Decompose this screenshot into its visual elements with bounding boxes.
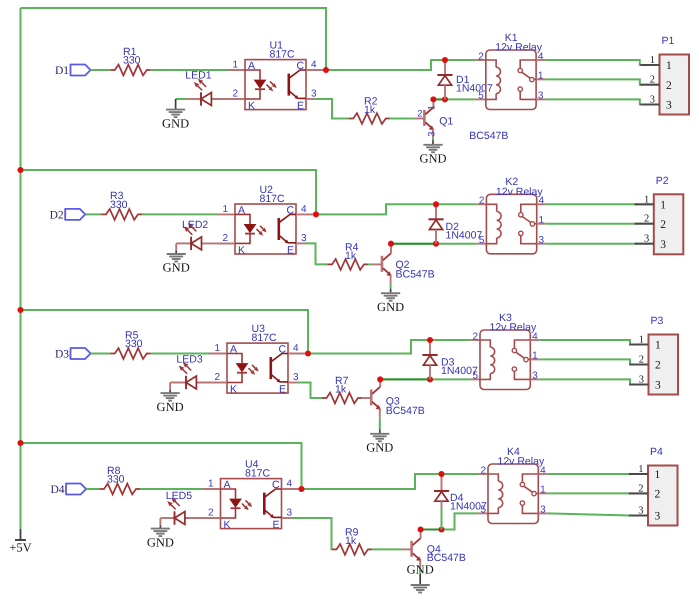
power symbol +5V (20, 529, 22, 540)
svg-text:1: 1 (427, 105, 438, 110)
diode D1 1N4007 (444, 60, 446, 75)
svg-text:817C: 817C (270, 48, 296, 60)
svg-text:12v Relay: 12v Relay (496, 186, 543, 198)
svg-text:330: 330 (123, 54, 141, 66)
junction : diode D2 top (433, 201, 439, 207)
ground : under Q3 (379, 417, 381, 430)
svg-text:5: 5 (472, 371, 478, 382)
svg-text:12v Relay: 12v Relay (498, 456, 545, 468)
wire : overlapped net segment (391, 243, 436, 245)
svg-text:K: K (238, 244, 245, 256)
junction : Q4 collector node (418, 526, 424, 532)
connector P2 (654, 194, 684, 254)
diode D4 1N4007 (441, 474, 443, 491)
svg-text:1: 1 (660, 200, 666, 212)
relay K4 12v Relay (488, 464, 538, 524)
wire : node to relay coil row (302, 474, 479, 489)
LED LED2 (176, 242, 191, 244)
svg-text:2: 2 (472, 331, 478, 342)
wire : opto emitter to base resistor (306, 98, 316, 100)
svg-text:3: 3 (655, 511, 661, 523)
svg-text:1: 1 (650, 55, 655, 66)
junction : Q3 collector node (377, 376, 383, 382)
svg-text:BC547B: BC547B (386, 405, 425, 417)
wire : opto emitter to base resistor (282, 517, 292, 519)
svg-text:2: 2 (660, 219, 666, 231)
svg-text:1: 1 (232, 60, 238, 71)
junction : rail ch4 (17, 440, 23, 446)
svg-text:2: 2 (666, 80, 672, 92)
wire : overlapped net segment (380, 378, 430, 380)
ground : under LED5 (159, 518, 161, 525)
resistor R3 330 (102, 209, 143, 220)
svg-text:P4: P4 (650, 446, 663, 458)
svg-text:A: A (238, 205, 245, 217)
wire : collector row to relay pin5 (391, 243, 477, 245)
svg-text:1: 1 (644, 194, 649, 205)
wire : relay contacts to connector (538, 473, 547, 475)
resistor R5 330 (110, 348, 151, 359)
svg-text:2: 2 (644, 214, 649, 225)
svg-text:1: 1 (655, 340, 661, 352)
svg-text:3: 3 (660, 239, 666, 251)
ground : under LED1 (175, 99, 177, 110)
junction : opto pin4 node ch2 (313, 211, 319, 217)
resistor R7 1k (322, 393, 362, 404)
svg-text:GND: GND (366, 441, 393, 455)
wire : node to relay coil row (326, 60, 476, 70)
svg-text:1k: 1k (345, 250, 357, 262)
wire (86, 488, 99, 490)
svg-text:P2: P2 (656, 175, 669, 187)
svg-text:330: 330 (110, 199, 128, 211)
relay K2 12v Relay (486, 194, 536, 254)
svg-text:817C: 817C (252, 332, 278, 344)
wire : collector row to relay pin5 (ch4) (421, 513, 479, 529)
svg-text:4: 4 (287, 479, 293, 490)
junction : diode D2 bottom (433, 241, 439, 247)
svg-text:1N4007: 1N4007 (446, 230, 483, 242)
wire : opto collector to +V node (296, 213, 316, 215)
wire : opto emitter to base resistor (296, 242, 306, 244)
ground : under Q1 (432, 137, 434, 140)
resistor R1 330 (110, 65, 151, 76)
node D1 : input net tag (71, 65, 91, 76)
svg-text:K: K (224, 519, 231, 531)
wire : opto collector to +V node (282, 488, 302, 490)
wire (91, 353, 111, 355)
node D2 : input net tag (65, 209, 85, 220)
svg-text:GND: GND (157, 400, 184, 414)
svg-text:3: 3 (644, 234, 649, 245)
svg-text:1: 1 (655, 469, 661, 481)
junction : rail ch3 (17, 307, 23, 313)
svg-text:C: C (297, 60, 305, 72)
wire : node to relay coil row (316, 204, 477, 214)
svg-text:C: C (279, 344, 287, 356)
connector P4 (648, 466, 678, 526)
op-amp/optocoupler U3 817C (227, 343, 288, 393)
svg-text:3: 3 (287, 508, 293, 519)
svg-text:C: C (287, 205, 295, 217)
svg-text:D1: D1 (55, 65, 69, 77)
junction : diode D4 bottom (438, 526, 444, 532)
svg-text:C: C (272, 479, 280, 491)
svg-text:Q1: Q1 (439, 116, 453, 128)
svg-text:1N4007: 1N4007 (456, 83, 493, 95)
svg-text:1: 1 (214, 343, 220, 354)
svg-text:3: 3 (650, 95, 655, 106)
op-amp/optocoupler U4 817C (221, 479, 282, 529)
junction : diode D3 bottom (427, 376, 433, 382)
junction : Q2 collector node (388, 241, 394, 247)
svg-text:4: 4 (293, 343, 299, 354)
wire (151, 69, 227, 71)
svg-text:GND: GND (163, 261, 190, 275)
svg-text:1: 1 (639, 335, 644, 346)
svg-text:3: 3 (301, 233, 307, 244)
junction : diode D4 top (438, 471, 444, 477)
diode D3 1N4007 (429, 340, 431, 355)
svg-text:1k: 1k (345, 535, 357, 547)
op-amp/optocoupler U2 817C (235, 204, 296, 254)
svg-text:D2: D2 (50, 209, 64, 221)
svg-text:3: 3 (638, 506, 643, 517)
wire (390, 118, 415, 120)
wire : opto collector to +V node (288, 353, 308, 355)
wire : ch1 top rail (21, 8, 327, 70)
wire : +5V rail branch ch4 (21, 443, 302, 489)
svg-text:817C: 817C (245, 467, 271, 479)
svg-text:LED3: LED3 (176, 354, 202, 366)
svg-text:2: 2 (479, 196, 485, 207)
svg-text:E: E (279, 384, 286, 396)
wire (142, 213, 217, 215)
svg-text:2: 2 (639, 355, 644, 366)
resistor R9 1k (332, 544, 372, 555)
wire : relay contacts to connector (537, 203, 546, 205)
connector P1 (660, 55, 690, 115)
op-amp/optocoupler U1 817C (245, 60, 306, 110)
junction : diode D1 bottom (442, 96, 448, 102)
svg-text:3: 3 (293, 372, 299, 383)
svg-text:GND: GND (377, 300, 404, 314)
wire : collector row to relay pin5 (433, 98, 476, 100)
node D4 : input net tag (66, 484, 86, 495)
svg-text:1k: 1k (335, 383, 347, 395)
svg-text:A: A (230, 344, 237, 356)
svg-text:3: 3 (666, 100, 672, 112)
svg-text:BC547B: BC547B (469, 130, 508, 142)
relay K1 12v Relay (486, 50, 536, 110)
svg-text:12v Relay: 12v Relay (495, 42, 542, 54)
svg-text:1: 1 (638, 464, 643, 475)
wire (151, 353, 209, 355)
resistor R4 1k (328, 259, 369, 270)
wire : collector row to relay pin5 (380, 378, 470, 380)
wire : opto emitter to base resistor (288, 382, 298, 384)
svg-text:LED2: LED2 (182, 219, 208, 231)
transistor Q2 BC547B (381, 256, 384, 272)
node D3 : input net tag (71, 348, 91, 359)
LED LED3 (170, 382, 186, 384)
svg-text:A: A (248, 60, 255, 72)
ground : under LED3 (169, 383, 171, 390)
svg-text:2: 2 (208, 508, 214, 519)
svg-text:GND: GND (407, 563, 434, 577)
svg-text:3: 3 (655, 380, 661, 392)
wire (372, 548, 402, 550)
junction : diode D3 top (427, 337, 433, 343)
wire : relay contacts to connector (536, 59, 545, 61)
relay K3 12v Relay (480, 330, 530, 390)
svg-text:2: 2 (638, 483, 643, 494)
wire (85, 213, 101, 215)
svg-text:330: 330 (107, 473, 125, 485)
LED LED5 (160, 517, 174, 519)
ground : under LED2 (175, 243, 177, 250)
junction : opto pin4 node ch1 (323, 67, 329, 73)
svg-text:2: 2 (650, 75, 655, 86)
svg-text:1: 1 (208, 479, 214, 490)
svg-text:1: 1 (666, 60, 672, 72)
svg-text:2: 2 (417, 108, 422, 119)
svg-text:1: 1 (222, 204, 228, 215)
junction : rail ch2 (17, 167, 23, 173)
svg-text:5: 5 (479, 235, 485, 246)
junction : opto pin4 node ch4 (298, 486, 304, 492)
svg-text:GND: GND (147, 535, 174, 549)
svg-text:BC547B: BC547B (396, 269, 435, 281)
svg-text:+5V: +5V (9, 541, 31, 555)
svg-text:D3: D3 (55, 349, 69, 361)
svg-text:GND: GND (419, 152, 446, 166)
svg-text:P1: P1 (662, 35, 675, 47)
wire : overlapped net segment (433, 98, 445, 100)
wire : +5V rail branch ch3 (21, 310, 309, 354)
svg-text:2: 2 (214, 372, 220, 383)
connector P3 (649, 335, 679, 395)
svg-text:3: 3 (311, 89, 317, 100)
transistor Q3 BC547B (370, 389, 373, 405)
svg-text:2: 2 (478, 51, 484, 62)
wire : relay contacts to connector (530, 339, 539, 341)
svg-text:2: 2 (232, 89, 238, 100)
junction : Q1 collector node (430, 96, 436, 102)
svg-text:5: 5 (478, 91, 484, 102)
svg-text:A: A (224, 479, 231, 491)
ground : under Q4 (419, 568, 421, 574)
svg-text:4: 4 (301, 204, 307, 215)
svg-text:2: 2 (222, 233, 228, 244)
transistor Q4 BC547B (410, 541, 413, 557)
wire : opto collector to +V node (306, 69, 326, 71)
svg-text:P3: P3 (651, 315, 664, 327)
svg-text:2: 2 (480, 465, 486, 476)
diode D2 1N4007 (435, 204, 437, 219)
svg-text:E: E (287, 244, 294, 256)
svg-text:1k: 1k (364, 104, 376, 116)
transistor Q1 BC547B (423, 110, 426, 126)
svg-text:3: 3 (639, 375, 644, 386)
svg-text:2: 2 (655, 489, 661, 501)
svg-text:GND: GND (162, 116, 189, 130)
svg-text:330: 330 (125, 338, 143, 350)
svg-text:4: 4 (311, 60, 317, 71)
net +5V : left supply rail (20, 8, 22, 529)
wire (361, 397, 363, 399)
svg-text:817C: 817C (260, 193, 286, 205)
svg-text:E: E (273, 519, 280, 531)
svg-text:LED1: LED1 (185, 70, 211, 82)
svg-text:LED5: LED5 (166, 490, 192, 502)
junction : diode D1 top (442, 57, 448, 63)
svg-text:2: 2 (655, 360, 661, 372)
svg-text:12v Relay: 12v Relay (490, 322, 537, 334)
wire : overlapped net segment (421, 529, 442, 531)
wire : node to relay coil row (308, 340, 470, 354)
wire (91, 69, 111, 71)
wire : +5V rail branch ch2 (21, 170, 317, 214)
wire (368, 263, 372, 265)
svg-text:K: K (230, 384, 237, 396)
LED LED1 (176, 98, 187, 100)
resistor R8 330 (100, 484, 141, 495)
wire (140, 488, 203, 490)
svg-text:3: 3 (426, 131, 437, 136)
svg-text:D4: D4 (50, 484, 64, 496)
ground : under Q2 (390, 283, 392, 289)
resistor R2 1k (349, 113, 390, 124)
svg-text:E: E (297, 100, 304, 112)
junction : opto pin4 node ch3 (305, 350, 311, 356)
svg-text:5: 5 (480, 505, 486, 516)
svg-text:K: K (248, 100, 255, 112)
